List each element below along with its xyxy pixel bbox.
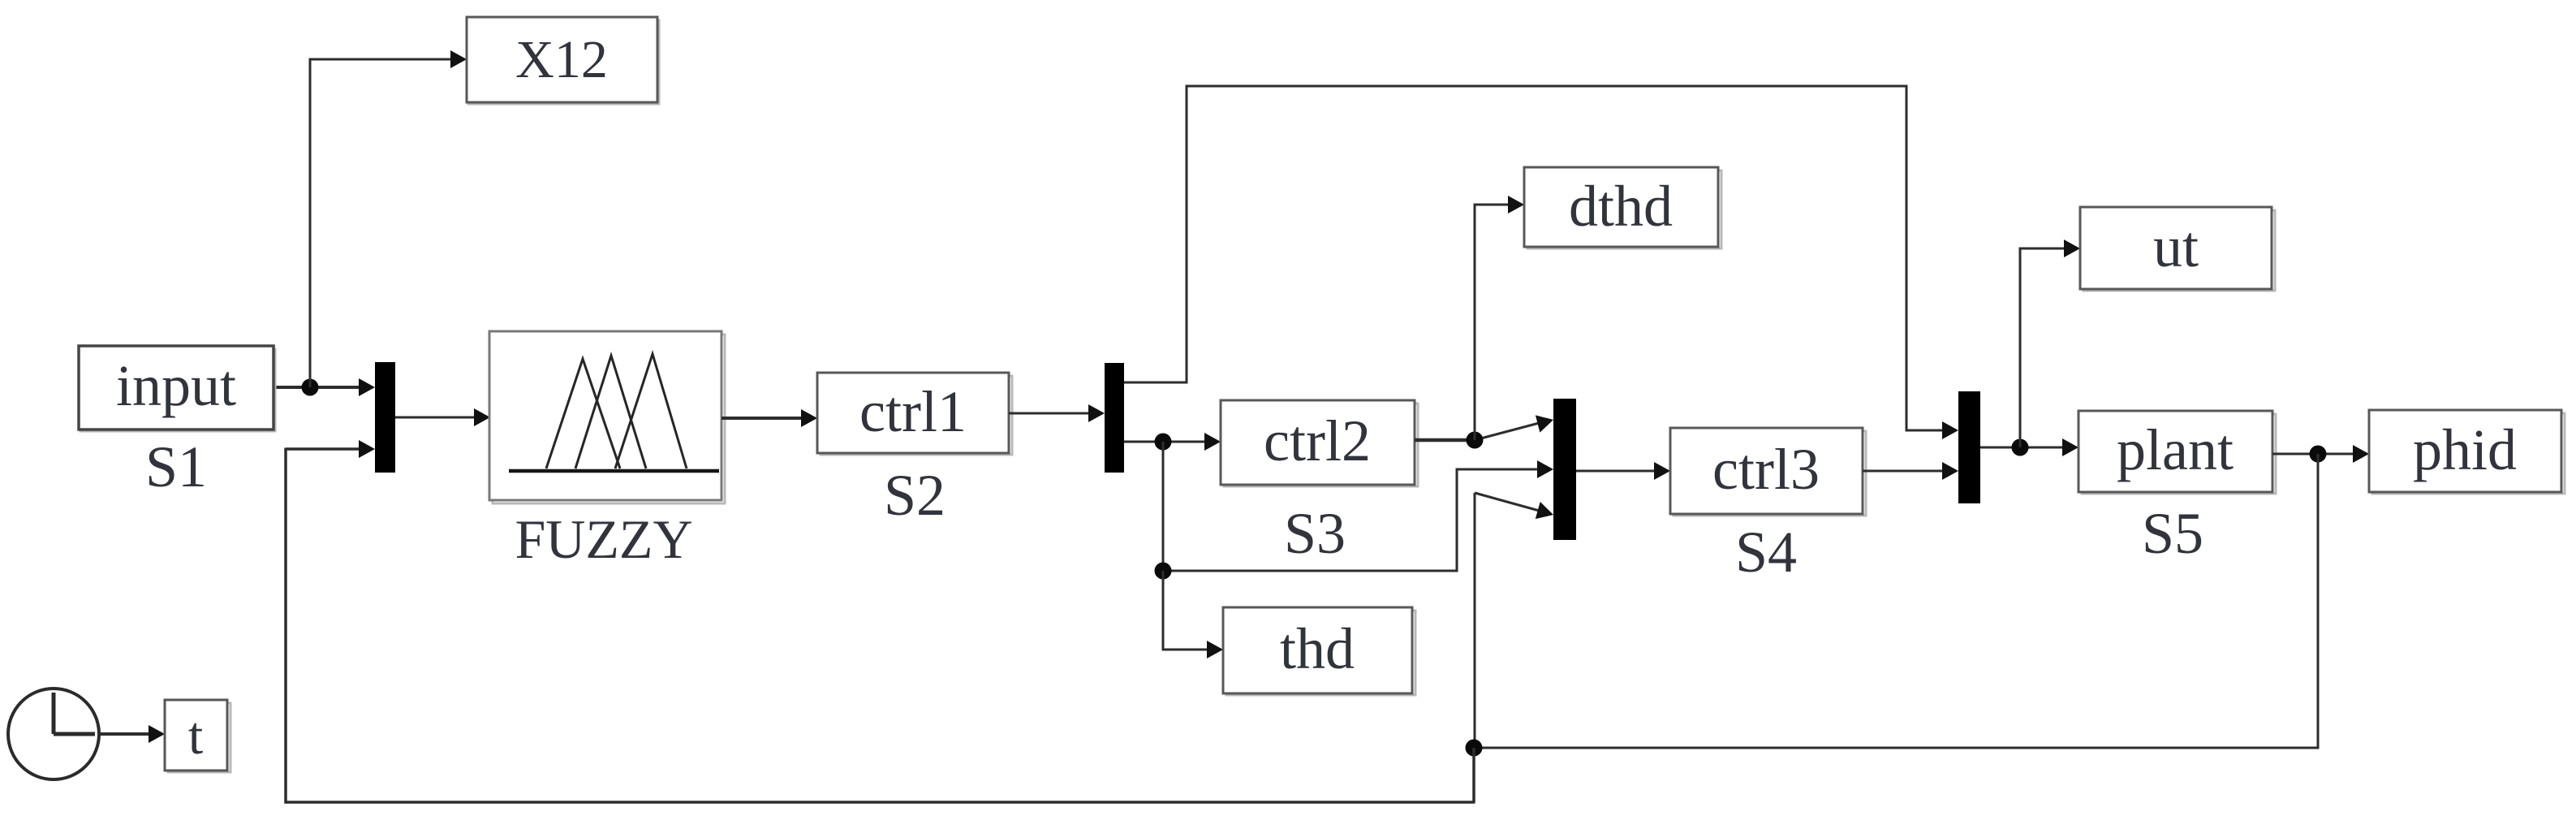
wire input to mux M1 with junction branch [274, 378, 375, 396]
svg-text:ctrl3: ctrl3 [1712, 437, 1820, 502]
wire feedback J6 down and left to J7 [1474, 454, 2320, 748]
node junction J6 [2310, 446, 2327, 463]
svg-text:t: t [188, 706, 203, 766]
mux M3 (black bar) [1958, 391, 1980, 503]
node junction J2 [1155, 434, 1172, 451]
wire ctrl2 out to junction J4 and diagonal into mux M2 input1 [1415, 411, 1556, 440]
mux M1 (black bar) [375, 362, 395, 473]
block ctrl3 [1670, 428, 1866, 516]
wire J3 down to thd [1162, 571, 1224, 658]
demux D1 (black bar) [1105, 363, 1124, 473]
block t [165, 700, 230, 772]
node junction J5 [2012, 439, 2029, 456]
block ut [2080, 207, 2275, 291]
block input [79, 346, 275, 431]
block ctrl1 [817, 373, 1012, 455]
block phid [2369, 410, 2565, 494]
block thd [1223, 607, 1415, 695]
svg-text:ut: ut [2153, 214, 2199, 279]
svg-text:dthd: dthd [1569, 174, 1673, 239]
wire ctrl3 out to mux M3 input2 [1863, 462, 1958, 480]
wire J2 down to J3 then right and up into mux M2 input2 [1163, 442, 1553, 572]
svg-text:ctrl1: ctrl1 [859, 379, 967, 444]
clock source [8, 689, 99, 779]
label S4 [1735, 520, 1797, 585]
wire J4 up to dthd [1474, 196, 1525, 440]
svg-text:plant: plant [2117, 417, 2234, 482]
block plant [2078, 411, 2276, 494]
node junction J1 on input wire [302, 379, 319, 396]
block ctrl2 [1221, 400, 1418, 486]
svg-text:ctrl2: ctrl2 [1264, 408, 1371, 473]
mux M2 (black bar) [1553, 399, 1576, 540]
block dthd [1524, 167, 1721, 248]
svg-text:FUZZY: FUZZY [515, 508, 692, 570]
label S5 [2142, 501, 2203, 566]
node junction J7 [1466, 740, 1483, 757]
svg-text:input: input [116, 353, 236, 418]
wire demux D1 top output long line to mux M3 [1124, 85, 1958, 440]
svg-text:S2: S2 [884, 463, 946, 528]
wire mux M2 out to ctrl3 [1576, 462, 1670, 480]
wire ctrl1 to demux D1 [1009, 404, 1105, 422]
wire plant out to phid [2272, 445, 2369, 463]
svg-text:S1: S1 [145, 434, 207, 499]
label S2 [884, 463, 946, 528]
wire J5 up to ut [2019, 240, 2081, 447]
wire clock to t [97, 725, 165, 743]
block X12 [467, 17, 659, 104]
block FUZZY (membership functions) [489, 331, 725, 503]
label S3 [1284, 501, 1346, 566]
svg-text:X12: X12 [515, 30, 608, 89]
svg-text:S4: S4 [1735, 520, 1797, 585]
wire mux M1 out to FUZZY [395, 408, 490, 426]
svg-text:phid: phid [2413, 417, 2517, 482]
node junction J3 [1155, 563, 1172, 580]
wire demux D1 main output to ctrl2 [1124, 433, 1221, 451]
wire feedback up from J7 into mux M2 input3 [1475, 493, 1556, 748]
wire feedback J7 down along bottom and up into mux M1 input2 [285, 440, 1475, 804]
wire mux M3 out to plant [1980, 438, 2078, 456]
svg-text:thd: thd [1280, 616, 1355, 681]
svg-text:S3: S3 [1284, 501, 1346, 566]
label FUZZY [515, 508, 692, 570]
wire J1 up to X12 [309, 50, 467, 387]
label S1 [145, 434, 207, 499]
wire FUZZY to ctrl1 [722, 409, 817, 427]
node junction J4 [1467, 432, 1484, 449]
svg-text:S5: S5 [2142, 501, 2203, 566]
